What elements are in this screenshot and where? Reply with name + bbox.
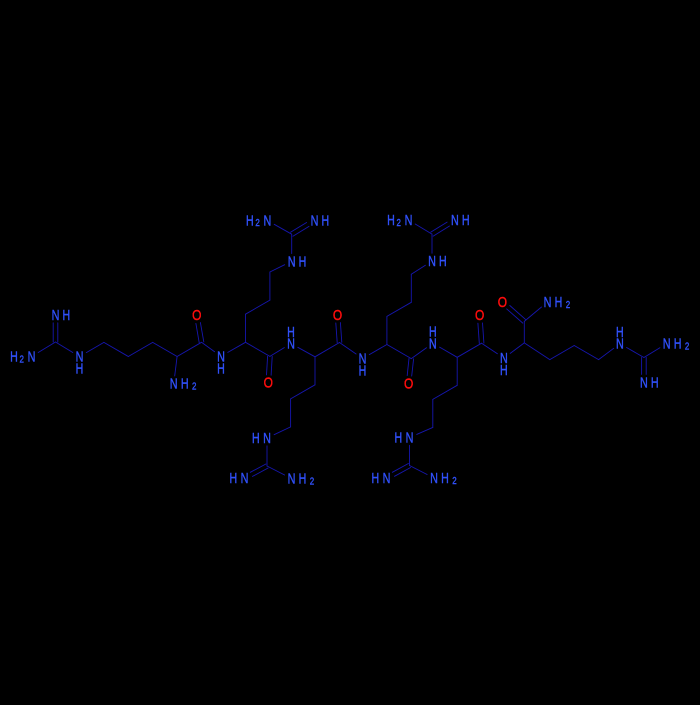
svg-text:N: N: [383, 469, 391, 486]
svg-text:H: H: [441, 469, 449, 486]
svg-text:N: N: [406, 429, 414, 446]
svg-text:O: O: [475, 307, 484, 323]
svg-text:N: N: [288, 253, 296, 270]
svg-text:N: N: [288, 470, 296, 487]
svg-text:O: O: [404, 375, 413, 391]
svg-text:O: O: [192, 307, 201, 323]
svg-text:H: H: [500, 362, 508, 379]
svg-text:H: H: [230, 469, 238, 486]
svg-text:H: H: [372, 469, 380, 486]
svg-text:N: N: [28, 348, 36, 365]
svg-text:H: H: [62, 306, 70, 323]
svg-text:N: N: [263, 429, 271, 446]
svg-text:H: H: [462, 211, 470, 228]
svg-text:N: N: [170, 375, 178, 392]
svg-text:H: H: [555, 293, 563, 310]
svg-text:N: N: [640, 374, 648, 391]
svg-text:2: 2: [566, 299, 570, 310]
svg-text:N: N: [52, 306, 60, 323]
svg-text:H: H: [252, 429, 260, 446]
svg-text:H: H: [439, 252, 447, 269]
svg-text:H: H: [10, 348, 18, 365]
svg-text:N: N: [663, 335, 671, 352]
svg-text:N: N: [451, 211, 459, 228]
svg-text:H: H: [429, 323, 437, 340]
svg-text:2: 2: [396, 217, 400, 228]
svg-text:O: O: [498, 294, 507, 310]
svg-text:H: H: [359, 362, 367, 379]
svg-text:H: H: [246, 212, 254, 229]
svg-text:H: H: [674, 335, 682, 352]
svg-text:H: H: [287, 323, 295, 340]
svg-text:H: H: [651, 374, 659, 391]
svg-text:N: N: [405, 211, 413, 228]
svg-text:H: H: [217, 360, 225, 377]
svg-text:H: H: [76, 360, 84, 377]
svg-text:N: N: [544, 293, 552, 310]
svg-text:H: H: [616, 323, 624, 340]
svg-text:N: N: [428, 252, 436, 269]
svg-text:N: N: [241, 469, 249, 486]
svg-text:N: N: [311, 212, 319, 229]
svg-text:2: 2: [685, 341, 689, 352]
svg-text:H: H: [395, 429, 403, 446]
svg-text:H: H: [387, 211, 395, 228]
svg-text:H: H: [321, 212, 329, 229]
svg-text:N: N: [430, 469, 438, 486]
svg-text:2: 2: [255, 217, 259, 228]
svg-text:2: 2: [310, 475, 314, 486]
svg-text:2: 2: [452, 475, 456, 486]
svg-text:2: 2: [19, 353, 23, 364]
svg-text:H: H: [299, 253, 307, 270]
svg-text:O: O: [333, 307, 342, 323]
svg-text:2: 2: [192, 381, 196, 392]
svg-text:H: H: [181, 375, 189, 392]
svg-text:O: O: [264, 375, 273, 391]
svg-text:H: H: [299, 470, 307, 487]
svg-text:N: N: [264, 212, 272, 229]
